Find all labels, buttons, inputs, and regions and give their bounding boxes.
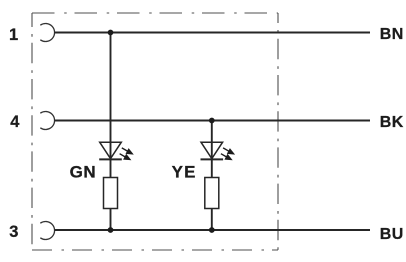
LED D2 (yellow) [201, 142, 224, 159]
resistor R2 [205, 178, 219, 209]
LED D1 light arrows [120, 148, 134, 160]
connector body right edge (dash-dot) [277, 13, 279, 250]
connector body bottom edge (dash-dot) [32, 249, 278, 251]
svg-text:YE: YE [172, 163, 197, 182]
svg-text:3: 3 [9, 223, 18, 241]
pin 4 contact [40, 112, 54, 130]
wire pin 1 to BN [55, 32, 371, 34]
wire vertical GN branch [110, 33, 112, 231]
svg-text:4: 4 [10, 113, 20, 131]
wire pin 3 to BU [55, 229, 371, 231]
connector body top edge (dash-dot) [32, 12, 278, 14]
node junction pin3/YE [209, 227, 215, 233]
resistor R1 [104, 178, 118, 209]
pin 3 contact [40, 222, 54, 240]
connector body left edge (dash-dot) [31, 13, 33, 250]
svg-text:BU: BU [380, 226, 404, 243]
LED D2 light arrows [221, 148, 235, 160]
svg-text:BK: BK [380, 114, 404, 131]
pin 1 contact [40, 23, 54, 41]
wire vertical YE branch [211, 121, 213, 231]
LED D1 (green) [99, 142, 122, 159]
node junction pin1/GN [108, 30, 114, 36]
node junction pin4/YE [209, 118, 215, 124]
svg-text:1: 1 [9, 26, 18, 44]
node junction pin3/GN [108, 227, 114, 233]
svg-text:GN: GN [70, 163, 97, 182]
svg-text:BN: BN [380, 26, 404, 43]
wire pin 4 to BK [55, 120, 371, 122]
